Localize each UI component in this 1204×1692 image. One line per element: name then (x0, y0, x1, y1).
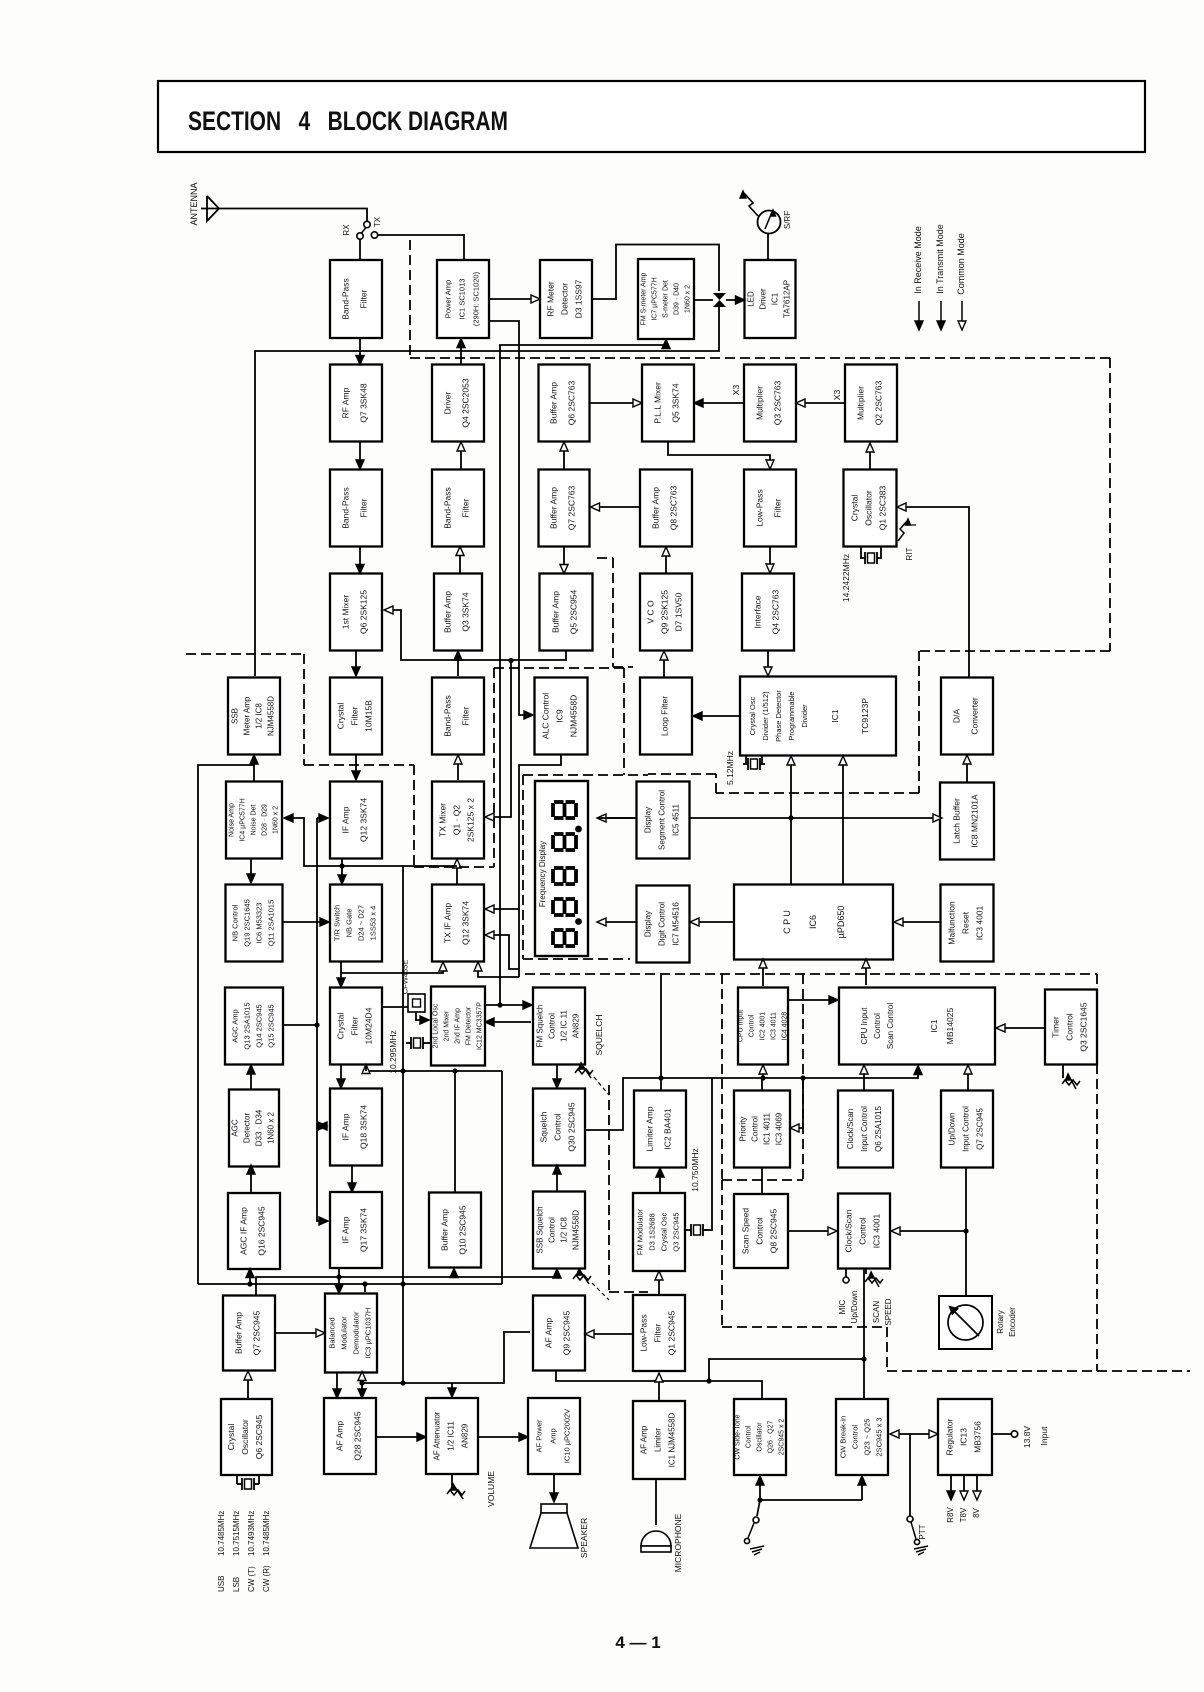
svg-text:Control: Control (751, 1116, 760, 1142)
svg-text:IC12 MC3357P: IC12 MC3357P (477, 1002, 484, 1050)
svg-text:1N60 x 2: 1N60 x 2 (273, 806, 280, 834)
svg-text:Q6 2SK125: Q6 2SK125 (359, 590, 369, 634)
svg-text:Q3 2SC945: Q3 2SC945 (672, 1212, 681, 1251)
svg-text:Phase Detector: Phase Detector (774, 690, 783, 742)
squelch pot dashed link (594, 1077, 609, 1095)
svg-text:Q13 2SA1015: Q13 2SA1015 (243, 1002, 252, 1049)
wire FM squelch to squelch ctl (553, 1064, 561, 1088)
wire branch to AF bus (709, 1359, 864, 1381)
svg-text:TX IF Amp: TX IF Amp (443, 903, 453, 943)
svg-text:Q18 3SK74: Q18 3SK74 (359, 1105, 369, 1149)
block AF Power Amp IC10 (528, 1398, 580, 1474)
svg-text:SSB Squelch: SSB Squelch (536, 1206, 545, 1253)
block Clock/Scan Control IC3 4001 (838, 1194, 890, 1269)
wire LO branch TX mixer (485, 658, 514, 821)
dashed boundary loop filter (597, 558, 633, 667)
svg-text:Q16 2SC945: Q16 2SC945 (257, 1206, 267, 1255)
ceramic filter CFW455E (382, 960, 429, 1024)
svg-text:IC1 4011: IC1 4011 (763, 1113, 772, 1145)
svg-text:Q6 2SC945: Q6 2SC945 (254, 1415, 264, 1460)
svg-text:Q12 3SK74: Q12 3SK74 (359, 798, 369, 842)
svg-text:2nd Mixer: 2nd Mixer (444, 1010, 451, 1041)
wire squelch to CPU input (759, 1065, 767, 1078)
wire bus B (AGC) (198, 1269, 502, 1287)
wire LO to buffer Q3 (454, 651, 462, 676)
svg-text:(290H: SC1020): (290H: SC1020) (472, 271, 481, 326)
svg-text:TC9123P: TC9123P (860, 698, 870, 734)
block Band-Pass Filter (TX IF) (432, 678, 484, 755)
block Buffer Amp Q7 2SC945 (223, 1296, 275, 1371)
svg-text:IC2 4001: IC2 4001 (760, 1012, 767, 1041)
wire crystal osc Q6 to buffer Q7 (244, 1371, 252, 1399)
svg-text:Q7 3SK48: Q7 3SK48 (359, 383, 369, 422)
wire CPU to display digit (690, 918, 734, 926)
wire S/RF to LED driver (767, 234, 769, 261)
svg-text:Squelch: Squelch (539, 1111, 549, 1142)
svg-text:Q30 2SC945: Q30 2SC945 (567, 1102, 577, 1151)
svg-text:Buffer Amp: Buffer Amp (234, 1312, 244, 1354)
svg-text:D24 ~ D27: D24 ~ D27 (357, 905, 366, 941)
svg-text:Divider: Divider (800, 704, 809, 728)
wire mult Q2 to mult Q3 (796, 399, 845, 407)
svg-text:X3: X3 (832, 390, 842, 401)
svg-text:1SS53 x 4: 1SS53 x 4 (369, 906, 378, 941)
wire buffer Q8 to buffer Q7 (591, 503, 641, 511)
block Display Digit Control IC7 M54516 (637, 886, 690, 963)
svg-text:Filter: Filter (461, 498, 471, 517)
svg-text:T/R Switch: T/R Switch (333, 905, 342, 941)
wire NB control to T/R switch (283, 918, 329, 926)
svg-text:IC4 µPC577H: IC4 µPC577H (240, 798, 247, 841)
seven segment digits 8.8.8.8.8 (553, 802, 582, 946)
block Band-Pass Filter (TX) (432, 470, 484, 547)
svg-text:Interface: Interface (753, 595, 763, 628)
svg-text:Q6 2SC763: Q6 2SC763 (567, 381, 577, 426)
wire noise amp tap (284, 814, 342, 866)
svg-text:Common Mode: Common Mode (956, 233, 966, 295)
wire SSB squelch to squelch ctl (553, 1165, 561, 1192)
wire band-pass to RF amp (356, 338, 364, 365)
wire bus A (carrier) (256, 1269, 561, 1296)
svg-text:1st Mixer: 1st Mixer (341, 595, 351, 630)
wire T/R to crystal filter 10M24D4 (337, 962, 345, 987)
SCAN SPEED pot (865, 1269, 893, 1326)
svg-text:Crystal: Crystal (850, 495, 860, 522)
wire buffer Q6 to PLL mixer (590, 399, 643, 407)
wire antenna to switch (219, 209, 367, 222)
block Crystal Oscillator Q6 2SC945 (221, 1399, 272, 1475)
svg-text:Limiter Amp: Limiter Amp (645, 1106, 655, 1151)
svg-text:Oscillator: Oscillator (757, 1422, 764, 1452)
wire regulator to 13.8V (992, 1426, 1049, 1449)
svg-text:Filter: Filter (653, 1323, 663, 1342)
svg-text:AN829: AN829 (461, 1423, 470, 1448)
crystal 10.750MHz (685, 1078, 712, 1236)
svg-text:Q1 2SC945: Q1 2SC945 (667, 1311, 677, 1356)
wire squelch to priority (761, 1078, 763, 1090)
wire D/A to crystal osc Q1 (897, 503, 969, 677)
svg-text:AGC IF Amp: AGC IF Amp (239, 1207, 249, 1255)
svg-text:RX: RX (342, 224, 351, 236)
frequency display box (535, 781, 588, 956)
svg-text:Clock/Scan: Clock/Scan (844, 1209, 854, 1252)
svg-text:R8V: R8V (946, 1507, 955, 1523)
crystal 5.12MHz (725, 751, 765, 785)
svg-text:D3 1S2688: D3 1S2688 (648, 1213, 657, 1251)
svg-text:Control: Control (1065, 1013, 1075, 1041)
svg-text:Band-Pass: Band-Pass (341, 278, 351, 320)
svg-text:Input Control: Input Control (962, 1106, 971, 1152)
svg-text:FM Detector: FM Detector (466, 1006, 473, 1045)
svg-text:IC1: IC1 (830, 709, 840, 723)
block Crystal Filter 10M15B (330, 678, 382, 755)
title box (158, 81, 1145, 152)
svg-text:Limiter: Limiter (654, 1428, 663, 1452)
wire CPU input ctl to CPU (759, 959, 767, 986)
block SSB Squelch Control 1/2 IC8 (533, 1192, 585, 1269)
svg-text:Power Amp: Power Amp (444, 280, 453, 318)
svg-text:Buffer Amp: Buffer Amp (440, 1209, 450, 1251)
wire IF Q12 tap to TX IF amp (342, 865, 457, 867)
svg-text:Q1 · Q2: Q1 · Q2 (452, 805, 462, 836)
svg-text:Band-Pass: Band-Pass (341, 487, 351, 529)
svg-text:NJM4558D: NJM4558D (267, 696, 276, 736)
label X3 (Q3) (731, 385, 741, 396)
svg-text:Filter: Filter (359, 289, 369, 308)
svg-text:Q9 2SC945: Q9 2SC945 (562, 1311, 572, 1356)
svg-text:IC13: IC13 (959, 1428, 969, 1446)
wire MB14025 to CPU (862, 959, 870, 985)
regulator outputs R8V T8V 8V (946, 1475, 981, 1523)
key jack switch (744, 1500, 764, 1555)
svg-text:CPU Input: CPU Input (738, 1010, 745, 1042)
svg-text:D3 1SS97: D3 1SS97 (574, 279, 584, 318)
label X3 (Q2) (832, 390, 842, 401)
dashed boundary CPU input box (722, 974, 803, 1180)
svg-text:Buffer Amp: Buffer Amp (549, 382, 559, 424)
block Band-Pass Filter (antenna) (330, 260, 382, 338)
wire clock/scan ctl to CW break-in (861, 1269, 866, 1398)
svg-text:IF Amp: IF Amp (341, 806, 351, 833)
svg-text:CW Break-in: CW Break-in (839, 1416, 848, 1459)
block AF Amp Q9 2SC945 (533, 1296, 585, 1371)
svg-text:Digit Control: Digit Control (658, 902, 667, 946)
wire IF Q17 to balanced mod (335, 1268, 343, 1294)
svg-text:ALC Control: ALC Control (541, 693, 551, 739)
svg-text:D39 · D40: D39 · D40 (674, 283, 681, 315)
svg-text:D7 1SV50: D7 1SV50 (674, 592, 684, 631)
svg-text:D28 · D29: D28 · D29 (262, 804, 269, 836)
svg-text:Q8 2SC763: Q8 2SC763 (669, 486, 679, 531)
block Up/Down Input Control Q7 (941, 1091, 993, 1168)
svg-text:Q5 3SK74: Q5 3SK74 (671, 383, 681, 422)
block Buffer Amp Q3 3SK74 (434, 574, 482, 651)
antenna (189, 182, 219, 225)
svg-text:S-meter Det: S-meter Det (663, 280, 670, 318)
svg-text:CW (T): CW (T) (247, 1566, 256, 1592)
svg-text:IC3 4001: IC3 4001 (872, 1213, 882, 1248)
wire noise amp to NB control (247, 858, 255, 883)
block Buffer Amp Q8 2SC763 (640, 470, 692, 547)
block Power Amp IC1 (437, 260, 489, 338)
svg-text:IC1 NJM4558D: IC1 NJM4558D (668, 1412, 677, 1467)
svg-text:SPEED: SPEED (884, 1298, 893, 1325)
block Crystal Osc / Divider TC9123P IC1 (740, 677, 896, 756)
wire FM squelch to IC12 (485, 1018, 531, 1026)
block IF Amp Q12 3SK74 (330, 782, 382, 859)
svg-text:Demodulator: Demodulator (352, 1311, 361, 1354)
block Squelch Control Q30 2SC945 (533, 1089, 585, 1166)
svg-text:TX Mixer: TX Mixer (438, 803, 448, 837)
svg-text:Timer: Timer (1051, 1016, 1061, 1038)
svg-text:TX: TX (373, 216, 382, 227)
block Buffer Amp Q10 2SC945 (429, 1193, 481, 1268)
svg-text:Reset: Reset (961, 911, 971, 934)
wire FM S-meter to diode pair (694, 299, 713, 301)
legend In Receive Mode (913, 226, 923, 330)
svg-text:Q12 3SK74: Q12 3SK74 (461, 901, 471, 945)
svg-text:SCAN: SCAN (872, 1301, 881, 1323)
block IF Amp Q17 3SK74 (330, 1192, 382, 1268)
block CW Break-in Control Q23-Q25 (836, 1399, 888, 1475)
svg-text:Q3 2SC1645: Q3 2SC1645 (1079, 1002, 1089, 1051)
dashed boundary scan left (722, 1180, 887, 1327)
wire segment ctrl to display (598, 817, 637, 819)
diode pair (713, 293, 726, 307)
wire 10M24D4 to IF Q18 (337, 1064, 345, 1088)
svg-text:MB3756: MB3756 (973, 1421, 983, 1453)
svg-text:Noise Det: Noise Det (251, 805, 258, 836)
wire limiter riser (658, 975, 663, 1090)
wire priority to scan speed (761, 1168, 763, 1194)
svg-text:Q19 2SC1645: Q19 2SC1645 (243, 899, 252, 947)
svg-text:Buffer Amp: Buffer Amp (551, 591, 561, 633)
block Loop Filter (640, 678, 692, 755)
wire IF amp Q12 to T/R switch (338, 858, 346, 884)
wire CPU to TC9123P b (839, 756, 847, 885)
wire CPU to TC9123P a (787, 756, 795, 885)
svg-text:NJM4558D: NJM4558D (569, 695, 579, 738)
block Multiplier Q3 2SC763 (744, 365, 796, 442)
wire BFO riser (400, 866, 405, 1386)
svg-text:1/2 IC8: 1/2 IC8 (560, 1217, 569, 1243)
wire RX to band-pass (359, 239, 361, 259)
svg-text:Q17 3SK74: Q17 3SK74 (359, 1208, 369, 1252)
block CPU Input Control IC2 IC3 IC4 (738, 988, 789, 1065)
block Crystal Filter 10M24D4 (330, 988, 382, 1065)
svg-text:14.2422MHz: 14.2422MHz (841, 554, 851, 602)
svg-text:Meter Amp: Meter Amp (243, 696, 252, 735)
block Driver Q4 2SC2053 (432, 365, 484, 442)
svg-text:Multiplier: Multiplier (856, 386, 866, 420)
block Limiter Amp IC2 BA401 (634, 1091, 686, 1168)
wire AGC IF to AGC det (247, 1165, 255, 1192)
block AGC Amp Q13 Q14 Q15 (225, 988, 283, 1065)
wire balanced mod to AF Q28 a (333, 1372, 341, 1398)
svg-text:Control: Control (548, 1217, 557, 1243)
block LED Driver IC1 TA7612AP (745, 260, 796, 338)
svg-text:AF Amp: AF Amp (544, 1318, 554, 1349)
svg-text:Q7 2SC763: Q7 2SC763 (567, 486, 577, 531)
RX/TX switch (342, 216, 382, 239)
block Balanced Modulator Demodulator IC3 (325, 1294, 377, 1373)
svg-text:Scan Control: Scan Control (886, 1003, 895, 1049)
svg-text:Divider (1/512): Divider (1/512) (761, 691, 770, 741)
svg-text:Q15 2SC945: Q15 2SC945 (267, 1004, 276, 1047)
svg-text:Q3 2SC763: Q3 2SC763 (773, 381, 783, 426)
svg-text:CW Side-Tone: CW Side-Tone (735, 1414, 742, 1459)
wire power amp to ALC riser (489, 321, 533, 719)
crystal 14.2422MHz (841, 547, 882, 602)
svg-text:1/2 IC8: 1/2 IC8 (255, 703, 264, 729)
svg-text:FM Squelch: FM Squelch (536, 1005, 545, 1048)
block ALC Control IC9 (535, 678, 588, 755)
legend In Transmit Mode (935, 224, 945, 330)
wire TX to power amp (378, 235, 465, 259)
svg-text:Input: Input (1039, 1426, 1049, 1446)
wire AGC line to IF Q12 (317, 814, 328, 822)
block AGC Detector D33 D34 (229, 1090, 279, 1167)
volume pot (447, 1471, 496, 1507)
svg-text:AGC Amp: AGC Amp (231, 1009, 240, 1042)
svg-text:IC4 4028: IC4 4028 (782, 1012, 789, 1041)
svg-text:Band-Pass: Band-Pass (443, 487, 453, 529)
timer pot (1062, 1065, 1080, 1089)
crystal 10.295MHz (388, 1030, 431, 1073)
svg-text:Control: Control (755, 1217, 765, 1245)
svg-text:Control: Control (873, 1013, 882, 1039)
svg-text:P.L.L Mixer: P.L.L Mixer (653, 382, 663, 424)
svg-text:Crystal: Crystal (226, 1424, 236, 1451)
svg-text:4 — 1: 4 — 1 (615, 1633, 660, 1652)
svg-text:SPEAKER: SPEAKER (579, 1518, 589, 1558)
svg-text:RIT: RIT (905, 547, 914, 560)
block FM S-meter Amp IC7 (638, 259, 694, 339)
svg-text:Q4 2SC2053: Q4 2SC2053 (461, 378, 471, 427)
svg-text:SECTION 4 BLOCK DIAGRAM: SECTION 4 BLOCK DIAGRAM (188, 106, 508, 136)
wire ALC out to TX IF amp (485, 755, 561, 977)
svg-text:Display: Display (644, 911, 653, 937)
svg-text:Q10 2SC945: Q10 2SC945 (458, 1205, 468, 1254)
svg-text:CW (R): CW (R) (262, 1565, 271, 1592)
legend Common Mode (956, 233, 966, 330)
svg-text:10.7485MHz: 10.7485MHz (262, 1511, 271, 1556)
block Buffer Amp Q6 2SC763 (539, 365, 590, 442)
svg-text:Low-Pass: Low-Pass (639, 1314, 649, 1351)
svg-text:Rotary: Rotary (996, 1310, 1005, 1334)
dashed boundary RX IF staircase (186, 654, 494, 867)
wire CPU input ctl to MB14025 (789, 996, 838, 1004)
block FM Squelch Control 1/2 IC11 (533, 988, 585, 1065)
svg-text:D/A: D/A (952, 709, 962, 724)
wire FM S-meter input riser (500, 340, 670, 1006)
svg-text:IC10 µPC2002V: IC10 µPC2002V (563, 1409, 572, 1463)
block TX IF Amp Q12 3SK74 (432, 885, 484, 962)
svg-text:RF Amp: RF Amp (341, 387, 351, 418)
svg-text:IC6: IC6 (808, 915, 818, 929)
dashed boundary logic top (525, 973, 1097, 975)
svg-text:Filter: Filter (350, 706, 360, 725)
svg-text:8V: 8V (972, 1507, 981, 1517)
svg-text:In Transmit Mode: In Transmit Mode (935, 224, 945, 294)
svg-text:NB Gate: NB Gate (345, 909, 354, 938)
wire band-pass 2 to 1st mixer (356, 547, 364, 574)
page number (615, 1633, 660, 1652)
PTT switch (907, 1434, 928, 1555)
wire low-pass to AF amp Q9 (585, 1330, 633, 1338)
wire buffer Q3 to band-pass TX (456, 547, 464, 575)
block 1st Mixer Q6 2SK125 (330, 574, 382, 651)
block NB Control Q19 (226, 885, 283, 962)
svg-text:Input Control: Input Control (860, 1106, 869, 1152)
svg-text:Q3 3SK74: Q3 3SK74 (461, 592, 471, 631)
svg-text:2SK125 x 2: 2SK125 x 2 (466, 798, 476, 842)
block Timer Control Q3 2SC1645 (1045, 990, 1097, 1065)
wire diode pair to LED driver (726, 296, 745, 304)
svg-text:Filter: Filter (359, 498, 369, 517)
wire band-pass TX to driver (457, 442, 465, 469)
block IF Amp Q18 3SK74 (330, 1089, 382, 1166)
block AF Amp Q28 2SC945 (324, 1398, 376, 1474)
wire CW break-in to regulator (890, 1430, 938, 1438)
wire VCO to buffer Q8 (662, 547, 670, 573)
speaker (530, 1504, 589, 1558)
svg-text:10.750MHz: 10.750MHz (690, 1148, 700, 1191)
wire bus to priority right (790, 1078, 803, 1132)
wire scan speed to clock/scan (788, 1227, 837, 1235)
block AGC IF Amp Q16 2SC945 (228, 1193, 280, 1269)
svg-text:AN829: AN829 (572, 1013, 581, 1038)
svg-text:Multiplier: Multiplier (755, 386, 765, 420)
block Clock/Scan Input Control Q6 (838, 1091, 893, 1168)
wire squelch bus (585, 1066, 922, 1131)
wire AF power to speaker (550, 1474, 558, 1502)
svg-text:IC7 µPC577H: IC7 µPC577H (652, 277, 659, 320)
svg-text:Filter: Filter (773, 498, 783, 517)
svg-text:1/2 IC 11: 1/2 IC 11 (560, 1010, 569, 1042)
svg-text:Control: Control (749, 1014, 756, 1037)
svg-text:IC1 SC1013: IC1 SC1013 (458, 279, 467, 320)
svg-text:Buffer Amp: Buffer Amp (443, 591, 453, 633)
svg-text:Control: Control (746, 1425, 753, 1448)
svg-text:USB: USB (217, 1576, 226, 1592)
wire AGC det to AGC amp (247, 1065, 255, 1089)
svg-text:2nd Local Osc: 2nd Local Osc (433, 1003, 440, 1048)
svg-text:Up/Down: Up/Down (850, 1291, 859, 1324)
block FM Modulator D3 Crystal Osc Q3 (633, 1193, 685, 1271)
svg-text:Detector: Detector (243, 1113, 252, 1144)
svg-text:Control: Control (858, 1217, 868, 1245)
svg-text:AF Attenuator: AF Attenuator (433, 1411, 442, 1460)
wire loop filter to VCO (660, 651, 668, 677)
wire RF meter to diode pair (592, 245, 719, 300)
svg-text:In Receive Mode: In Receive Mode (913, 226, 923, 294)
wire crystal filter to IF amp Q12 (352, 755, 360, 780)
svg-text:Buffer Amp: Buffer Amp (549, 487, 559, 529)
wire 1st mixer to crystal filter (352, 651, 360, 676)
wire malfunction to CPU (894, 918, 941, 926)
svg-text:IF Amp: IF Amp (341, 1216, 351, 1243)
svg-text:IC3 4001: IC3 4001 (975, 905, 985, 940)
svg-text:Q7 2SC945: Q7 2SC945 (976, 1108, 985, 1150)
wire AGC to IF amps (283, 818, 328, 1225)
svg-text:IC7 M54516: IC7 M54516 (672, 902, 681, 946)
block Low-Pass Filter Q1 2SC945 (633, 1295, 685, 1371)
wire rotary riser (963, 1168, 968, 1295)
svg-text:Q23 ~ Q25: Q23 ~ Q25 (863, 1419, 872, 1456)
svg-text:Up/Down: Up/Down (948, 1113, 957, 1146)
svg-text:2nd IF Amp: 2nd IF Amp (455, 1008, 462, 1044)
